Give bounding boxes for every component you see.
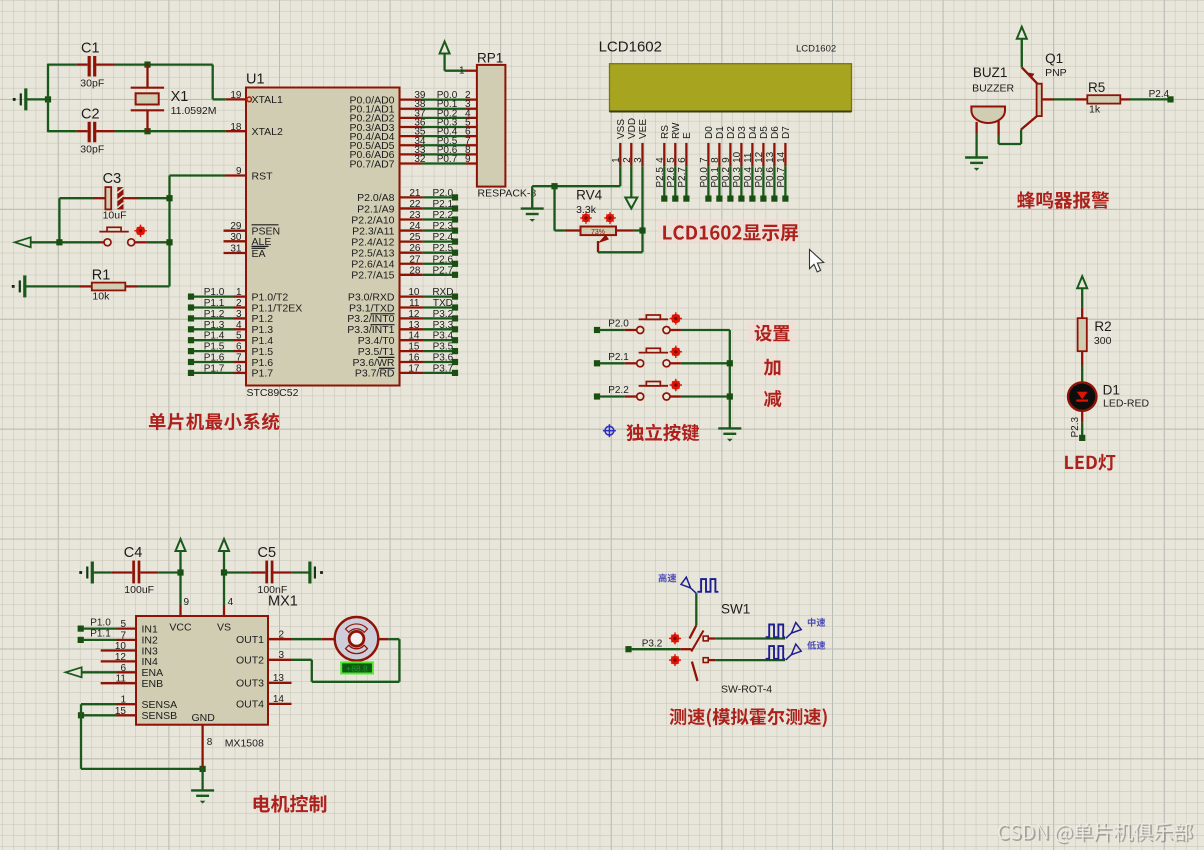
svg-text:P2.6: P2.6 [433,254,454,265]
svg-text:U1: U1 [246,72,265,88]
svg-text:P3.7: P3.7 [433,363,454,374]
svg-text:16: 16 [408,353,420,364]
svg-text:25: 25 [409,232,421,243]
svg-text:BUZZER: BUZZER [972,83,1014,95]
svg-text:22: 22 [409,199,421,210]
svg-text:P2.1: P2.1 [433,199,454,210]
svg-text:P3.3: P3.3 [433,320,454,331]
svg-text:C2: C2 [81,107,100,123]
svg-text:D7: D7 [781,126,792,139]
svg-text:P1.3: P1.3 [204,320,225,331]
svg-text:P0.5: P0.5 [754,167,765,188]
svg-text:P2.4: P2.4 [1149,89,1170,100]
svg-text:13: 13 [273,673,285,684]
svg-text:RP1: RP1 [477,51,503,66]
svg-text:P1.2: P1.2 [204,309,225,320]
svg-text:P1.5: P1.5 [204,342,225,353]
svg-text:TXD: TXD [433,298,453,309]
svg-text:LCD1602: LCD1602 [796,44,836,55]
svg-text:30pF: 30pF [80,78,104,90]
svg-text:C1: C1 [81,41,100,57]
svg-text:P2.7: P2.7 [677,167,688,188]
svg-text:XTAL2: XTAL2 [252,126,283,138]
svg-text:P2.6: P2.6 [666,167,677,188]
svg-text:PNP: PNP [1045,67,1067,79]
svg-text:P2.4: P2.4 [433,232,454,243]
svg-text:P3.6: P3.6 [433,353,454,364]
svg-text:P2.3: P2.3 [1070,416,1081,437]
svg-text:P3.4: P3.4 [433,331,454,342]
svg-text:1: 1 [611,157,622,163]
svg-text:P3.2: P3.2 [642,639,663,650]
svg-text:24: 24 [409,221,421,232]
svg-text:RXD: RXD [432,287,453,298]
svg-text:P3.7/RD: P3.7/RD [355,368,395,380]
svg-text:13: 13 [765,151,776,163]
svg-text:P2.7/A15: P2.7/A15 [351,270,394,282]
svg-text:10: 10 [732,151,743,163]
svg-text:10uF: 10uF [103,210,127,222]
svg-text:XTAL1: XTAL1 [252,94,283,106]
svg-text:7: 7 [699,157,710,163]
svg-text:P2.2: P2.2 [433,210,454,221]
svg-text:D4: D4 [748,126,759,139]
svg-text:E: E [682,132,693,139]
svg-text:19: 19 [230,90,242,101]
svg-text:P0.7: P0.7 [776,167,787,188]
svg-text:2: 2 [622,157,633,163]
svg-text:LED-RED: LED-RED [1103,398,1150,410]
svg-text:P0.7: P0.7 [437,154,458,165]
svg-text:STC89C52: STC89C52 [247,387,299,399]
svg-text:8: 8 [207,737,213,748]
svg-text:RESPACK-8: RESPACK-8 [478,188,537,200]
svg-text:C3: C3 [103,171,122,187]
svg-text:P2.0: P2.0 [433,188,454,199]
svg-text:RV4: RV4 [576,188,603,203]
svg-text:9: 9 [184,597,190,608]
svg-text:32: 32 [414,154,426,165]
svg-text:28: 28 [409,265,421,276]
svg-text:P1.1: P1.1 [90,629,111,640]
svg-text:15: 15 [408,342,420,353]
svg-text:R5: R5 [1088,80,1105,95]
svg-text:IN1: IN1 [142,623,159,635]
svg-text:VS: VS [217,622,231,634]
svg-text:RS: RS [660,125,671,139]
svg-text:4: 4 [655,157,666,163]
svg-text:73%: 73% [591,229,605,236]
svg-text:17: 17 [408,363,420,374]
svg-text:P2.1: P2.1 [608,352,629,363]
svg-text:D5: D5 [759,126,770,139]
svg-text:RST: RST [252,170,274,182]
svg-text:9: 9 [721,157,732,163]
svg-text:VDD: VDD [627,118,638,139]
svg-text:8: 8 [710,157,721,163]
svg-text:EA: EA [252,248,266,260]
svg-text:14: 14 [273,694,285,705]
svg-text:P2.2: P2.2 [608,385,629,396]
svg-text:VSS: VSS [616,119,627,139]
svg-text:30pF: 30pF [80,144,104,156]
svg-text:12: 12 [408,309,420,320]
svg-text:6: 6 [677,157,688,163]
svg-text:P3.5: P3.5 [433,342,454,353]
svg-text:VEE: VEE [638,119,649,139]
svg-text:P0.1: P0.1 [710,167,721,188]
svg-text:1: 1 [459,66,465,77]
svg-text:X1: X1 [171,89,189,105]
svg-text:P3.2: P3.2 [433,309,454,320]
svg-text:D2: D2 [726,126,737,139]
svg-text:OUT3: OUT3 [236,678,264,690]
svg-text:2: 2 [278,629,284,640]
svg-text:14: 14 [776,151,787,163]
svg-text:SW-ROT-4: SW-ROT-4 [721,684,772,696]
svg-text:D0: D0 [704,126,715,139]
svg-text:OUT4: OUT4 [236,699,264,711]
svg-text:D1: D1 [1103,383,1120,398]
svg-text:OUT2: OUT2 [236,655,264,667]
svg-text:C4: C4 [124,545,143,561]
svg-text:R1: R1 [92,268,111,284]
svg-text:D6: D6 [770,126,781,139]
svg-text:P1.0: P1.0 [90,617,111,628]
svg-text:P2.5: P2.5 [655,167,666,188]
svg-text:14: 14 [408,331,420,342]
svg-text:P1.0: P1.0 [204,287,225,298]
svg-text:P2.5: P2.5 [433,243,454,254]
svg-text:MX1: MX1 [268,594,298,610]
svg-text:P0.7/AD7: P0.7/AD7 [350,158,395,170]
svg-text:P0.6: P0.6 [765,167,776,188]
svg-text:5: 5 [666,157,677,163]
svg-text:P1.6: P1.6 [204,353,225,364]
svg-text:300: 300 [1094,335,1112,347]
svg-text:Q1: Q1 [1045,51,1063,66]
svg-text:SENSB: SENSB [142,710,178,722]
svg-text:LCD1602: LCD1602 [599,39,662,56]
svg-text:P2.7: P2.7 [433,265,454,276]
svg-text:GND: GND [192,712,216,724]
svg-text:10: 10 [408,287,420,298]
svg-text:23: 23 [409,210,421,221]
svg-text:P1.1: P1.1 [204,298,225,309]
svg-text:P0.4: P0.4 [743,167,754,188]
svg-text:11: 11 [409,298,420,309]
svg-text:100uF: 100uF [124,584,154,596]
svg-text:11.0592M: 11.0592M [171,105,217,117]
svg-text:R2: R2 [1094,319,1111,334]
svg-text:13: 13 [408,320,420,331]
svg-text:VCC: VCC [169,622,192,634]
svg-text:18: 18 [230,122,242,133]
svg-text:P1.7: P1.7 [252,368,274,380]
svg-text:P1.4: P1.4 [204,331,225,342]
svg-text:+88.8: +88.8 [346,663,368,673]
svg-text:D3: D3 [737,126,748,139]
svg-text:SW1: SW1 [721,602,750,617]
svg-text:11: 11 [743,152,754,163]
svg-text:3: 3 [278,650,284,661]
svg-text:ENB: ENB [142,678,164,690]
svg-text:26: 26 [409,243,421,254]
svg-text:P0.2: P0.2 [721,167,732,188]
svg-text:OUT1: OUT1 [236,634,264,646]
svg-text:C5: C5 [258,545,277,561]
svg-text:9: 9 [465,154,471,165]
svg-text:P2.3: P2.3 [433,221,454,232]
svg-text:MX1508: MX1508 [225,738,264,750]
svg-text:P0.3: P0.3 [732,167,743,188]
svg-text:P1.7: P1.7 [204,363,225,374]
svg-text:1k: 1k [1089,104,1101,116]
svg-text:9: 9 [236,166,242,177]
svg-text:D1: D1 [715,126,726,139]
svg-text:3: 3 [633,157,644,163]
svg-text:4: 4 [228,597,234,608]
svg-text:10k: 10k [92,291,110,303]
svg-text:27: 27 [409,254,421,265]
svg-text:21: 21 [409,188,421,199]
svg-text:P2.0: P2.0 [608,319,629,330]
svg-text:P0.0: P0.0 [699,167,710,188]
svg-text:BUZ1: BUZ1 [973,65,1008,80]
svg-text:RW: RW [671,122,682,139]
svg-text:12: 12 [754,151,765,163]
